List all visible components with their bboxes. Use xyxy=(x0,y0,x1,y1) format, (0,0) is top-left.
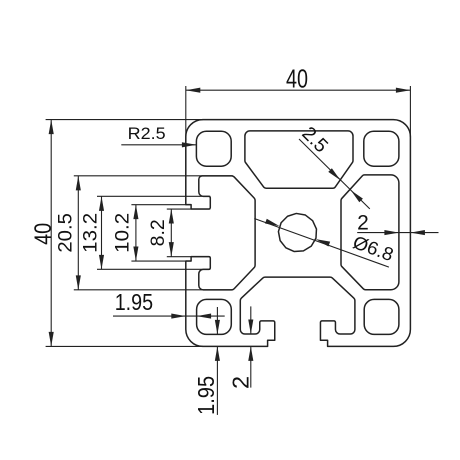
dimension 1.95 bottom wall thickness xyxy=(193,307,220,415)
top-left corner cavity xyxy=(196,131,231,166)
svg-text:10.2: 10.2 xyxy=(113,213,134,253)
svg-text:40: 40 xyxy=(30,223,57,245)
dimension diameter 6.8 center bore xyxy=(254,219,396,268)
right-middle cavity xyxy=(341,175,399,290)
svg-text:40: 40 xyxy=(286,63,308,93)
svg-text:8.2: 8.2 xyxy=(148,219,169,246)
svg-text:1.95: 1.95 xyxy=(193,376,219,415)
svg-text:13.2: 13.2 xyxy=(80,213,101,253)
top-right corner cavity xyxy=(364,131,399,166)
profile outer contour with left and bottom T-slots xyxy=(186,120,411,347)
dimension 40 top width xyxy=(186,63,411,203)
bottom-left corner cavity xyxy=(197,299,232,334)
dimension 2.5 diagonal wall thickness xyxy=(298,123,370,209)
dimension 10.2 slot mouth width xyxy=(113,205,191,261)
top-center trapezoid cavity xyxy=(245,131,353,188)
svg-text:1.95: 1.95 xyxy=(115,289,153,315)
svg-text:2: 2 xyxy=(227,376,253,389)
dimension 2 right wall thickness xyxy=(357,212,438,236)
bottom-right corner cavity xyxy=(364,299,399,334)
dimension 8.2 slot opening width xyxy=(148,209,210,257)
center bore circle Ø6.8 xyxy=(278,213,316,251)
leader R2.5 corner radius xyxy=(121,125,196,148)
svg-text:20.5: 20.5 xyxy=(54,213,76,253)
dimension 2 bottom slot floor thickness xyxy=(227,306,253,389)
dimension 20.5 slot chamber width xyxy=(54,176,233,290)
dimension 40 left height xyxy=(30,120,203,347)
svg-text:R2.5: R2.5 xyxy=(128,125,166,143)
dimension 13.2 slot lip outer width xyxy=(80,196,210,269)
dimension 1.95 left wall thickness xyxy=(113,289,225,319)
